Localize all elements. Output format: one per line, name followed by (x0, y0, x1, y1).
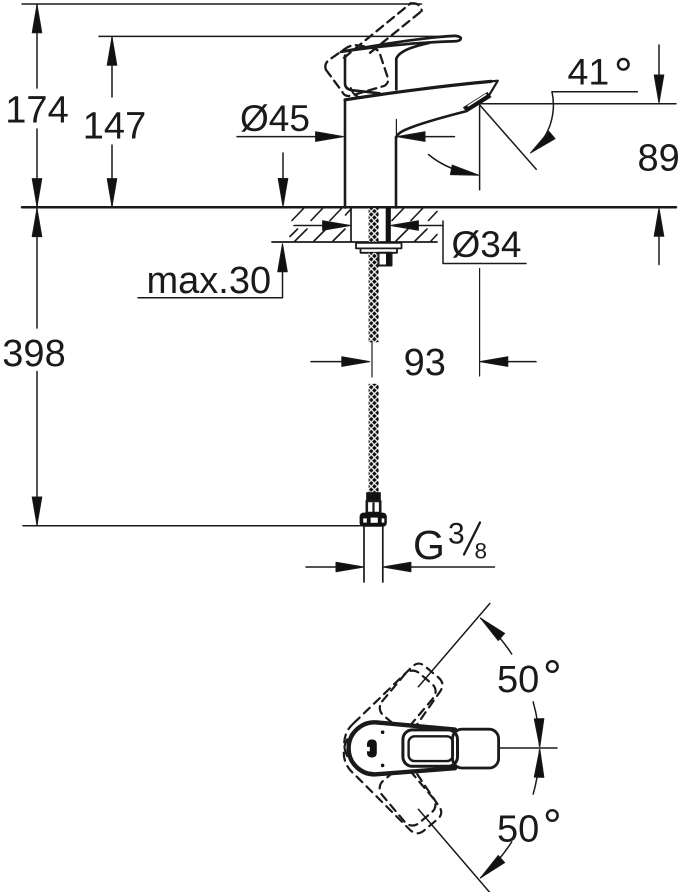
svg-text:max.30: max.30 (147, 260, 272, 302)
svg-text:G: G (413, 522, 445, 568)
shank hole walls (351, 208, 390, 242)
countertop hatching (290, 209, 437, 242)
handle blob (367, 740, 377, 758)
handle hole outer (403, 730, 458, 766)
svg-text:Ø45: Ø45 (240, 98, 310, 139)
hose fitting (367, 501, 380, 513)
solid handle top view: thick outline (349, 722, 455, 774)
hose break centerline (371, 342, 373, 377)
dim 41 deg (552, 91, 637, 93)
hose ferrule (366, 492, 381, 501)
aerator (464, 93, 491, 112)
vertical reference from aerator (479, 105, 481, 190)
faucet solid head: lever blade (341, 36, 461, 52)
hose below washer (369, 253, 379, 342)
mounting band (361, 248, 398, 252)
dashed handle rotated +50 (333, 654, 452, 781)
dim O45 (237, 120, 455, 142)
angle arc bottom (481, 750, 540, 878)
handle hole inner (409, 736, 453, 761)
stud nut (379, 253, 392, 266)
extension line 147 (99, 35, 451, 37)
spout nose (490, 81, 498, 95)
dim 147 (111, 37, 113, 206)
handle grip end piece (453, 729, 499, 768)
dim O34 (294, 221, 526, 264)
svg-text:8: 8 (475, 539, 488, 564)
spray direction diagonal (480, 105, 537, 170)
countertop bottom line (272, 241, 437, 243)
svg-text:50: 50 (497, 809, 539, 851)
dim 398 (36, 209, 38, 525)
countertop top line (22, 206, 676, 209)
neck curve (396, 43, 429, 89)
svg-text:3: 3 (448, 518, 465, 551)
angle arc top (481, 618, 540, 746)
hose end level line (23, 525, 361, 527)
dim G 3/8 (306, 566, 495, 568)
dashed handle rotated -50 (333, 715, 452, 842)
horizontal reference (500, 747, 557, 749)
svg-text:89: 89 (638, 138, 680, 180)
spout underside (396, 111, 466, 138)
svg-text:50: 50 (497, 659, 539, 701)
hose nut (360, 513, 387, 527)
washer under counter (356, 243, 402, 249)
dim 89 (658, 45, 660, 265)
angle reference diagonals (418, 604, 489, 687)
handle dots (381, 730, 385, 734)
G3/8 tube (364, 527, 383, 582)
threaded stud (black bar) (386, 208, 391, 242)
spout top edge (345, 81, 491, 99)
svg-text:Ø34: Ø34 (452, 224, 522, 265)
spout outlet level line (481, 103, 676, 105)
body right edge (395, 137, 398, 208)
dim max.30 (138, 153, 283, 298)
svg-text:41: 41 (568, 51, 610, 93)
solid handle top view: white silhouette (349, 722, 500, 774)
body left edge (344, 100, 347, 208)
svg-text:174: 174 (5, 90, 68, 132)
handle base (345, 56, 380, 94)
dim 174 (36, 5, 38, 207)
svg-text:147: 147 (83, 106, 146, 148)
extension line 174 (top) (22, 3, 422, 5)
svg-text:93: 93 (404, 342, 446, 384)
dim 93 (311, 269, 536, 377)
ball joint bump (351, 88, 362, 98)
dashed raised handle (side view) (325, 3, 421, 96)
svg-text:398: 398 (2, 333, 65, 375)
hose in shank (369, 208, 379, 242)
hose lower section (369, 384, 379, 493)
